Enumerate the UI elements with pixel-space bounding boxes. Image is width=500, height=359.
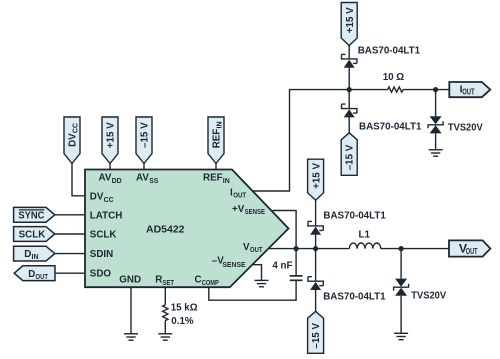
wire REFIN flag to pin xyxy=(215,164,217,170)
svg-text:SENSE: SENSE xyxy=(223,262,246,269)
svg-text:COMP: COMP xyxy=(202,280,219,287)
wire DIN to SDIN xyxy=(55,253,85,255)
wire D1 to junction xyxy=(348,68,350,90)
node REFIN flag xyxy=(208,117,224,164)
ground (TVS1) xyxy=(429,150,443,156)
wire resistor to IOUT flag xyxy=(403,89,449,91)
wire TVS1 to ground xyxy=(435,133,437,149)
svg-text:+V: +V xyxy=(232,204,245,215)
svg-text:REF: REF xyxy=(212,129,223,149)
pin label CCOMP xyxy=(195,274,220,287)
node IOUT output flag xyxy=(449,82,490,97)
wire RSET resistor to ground xyxy=(164,321,166,334)
diode D3 BAS70 upper (VOUT) xyxy=(308,221,323,234)
node DOUT output flag xyxy=(14,266,55,281)
svg-text:10 Ω: 10 Ω xyxy=(383,72,405,83)
pin label REFIN xyxy=(203,173,230,186)
pin label DVCC xyxy=(90,192,114,205)
wire +VSENSE to VOUT node xyxy=(273,211,297,249)
pin label IOUT xyxy=(230,187,247,199)
ground (-VSENSE) xyxy=(255,280,269,286)
node junction VOUT-cap xyxy=(294,246,299,251)
svg-text:SS: SS xyxy=(149,178,159,185)
svg-text:V: V xyxy=(243,242,250,253)
ground (GND pin) xyxy=(124,334,138,340)
TVS diode TVS20V (IOUT) xyxy=(428,116,443,133)
pin label +VSENSE xyxy=(232,204,265,216)
resistor RSET 15k xyxy=(163,305,168,321)
svg-text:C: C xyxy=(195,274,202,285)
capacitor C 4nF plates xyxy=(290,276,303,280)
node +15V supply flag (AVDD) xyxy=(102,117,118,164)
node -15V supply flag (IOUT clamp) xyxy=(341,133,357,176)
svg-text:DD: DD xyxy=(112,178,122,185)
wire TVS1 top xyxy=(435,90,437,117)
node -15V supply flag (AVSS) xyxy=(136,117,152,164)
svg-text:0.1%: 0.1% xyxy=(171,316,194,327)
wire TVS2 top xyxy=(400,249,402,279)
svg-text:OUT: OUT xyxy=(462,88,475,97)
svg-text:BAS70-04LT1: BAS70-04LT1 xyxy=(359,121,422,132)
node DIN input flag xyxy=(14,246,55,261)
svg-text:BAS70-04LT1: BAS70-04LT1 xyxy=(358,46,421,57)
wire RSET pin down xyxy=(164,287,166,305)
wire SYNC to LATCH xyxy=(55,214,85,216)
pin label AVDD xyxy=(99,173,122,186)
wire TVS2 to ground xyxy=(400,296,402,334)
op-amp U1 AD5422 chip body xyxy=(85,170,289,288)
svg-text:D: D xyxy=(28,269,35,280)
wire -VSENSE to ground xyxy=(253,265,262,281)
node junction IOUT-TVS xyxy=(433,87,438,92)
svg-text:AD5422: AD5422 xyxy=(146,224,185,236)
diode D4 BAS70 lower (VOUT) xyxy=(308,277,323,290)
TVS diode TVS20V (VOUT) xyxy=(394,279,409,296)
pin label AVSS xyxy=(136,173,159,186)
node SYNC input flag xyxy=(14,207,55,222)
wire VOUT pin to inductor xyxy=(268,248,349,250)
wire junction to D2 xyxy=(348,90,350,109)
svg-text:BAS70-04LT1: BAS70-04LT1 xyxy=(323,291,386,302)
svg-text:AV: AV xyxy=(136,173,149,184)
svg-text:REF: REF xyxy=(203,173,223,184)
wire DVCC flag to pin xyxy=(72,164,85,196)
svg-text:OUT: OUT xyxy=(250,247,263,254)
svg-text:L1: L1 xyxy=(359,230,371,241)
svg-text:CC: CC xyxy=(104,197,114,204)
wire CCOMP to capacitor bottom xyxy=(209,280,296,300)
wire GND pin down xyxy=(130,287,132,334)
svg-text:+15 V: +15 V xyxy=(311,163,322,189)
svg-text:SCLK: SCLK xyxy=(19,230,46,241)
node -15V supply flag (VOUT clamp) xyxy=(308,311,324,353)
node junction VOUT-TVS xyxy=(399,246,404,251)
svg-text:CC: CC xyxy=(73,123,80,133)
wire +15V to diode D1 xyxy=(348,46,350,59)
wire +15V to D3 xyxy=(315,200,317,226)
svg-text:OUT: OUT xyxy=(466,247,478,256)
svg-text:SYNC: SYNC xyxy=(18,211,44,222)
node +15V supply flag (IOUT clamp) xyxy=(341,3,357,46)
svg-text:LATCH: LATCH xyxy=(90,210,122,221)
node +15V supply flag (VOUT clamp) xyxy=(308,159,324,200)
pin label RSET xyxy=(155,274,174,287)
svg-text:IN: IN xyxy=(223,178,230,185)
svg-text:–15 V: –15 V xyxy=(311,323,322,349)
wire SCLK to SCLK pin xyxy=(55,233,85,235)
svg-text:SCLK: SCLK xyxy=(90,230,117,241)
svg-text:–15 V: –15 V xyxy=(345,144,356,170)
wire D2 to -15V flag xyxy=(348,117,350,132)
pin label -VSENSE xyxy=(212,256,246,269)
ground (TVS2) xyxy=(394,333,408,339)
wire inductor to VOUT flag xyxy=(381,248,449,250)
svg-text:4 nF: 4 nF xyxy=(272,261,292,272)
wire capacitor top to VOUT node xyxy=(295,249,297,276)
svg-text:GND: GND xyxy=(119,274,141,285)
svg-text:D: D xyxy=(24,249,31,260)
svg-text:DV: DV xyxy=(90,192,104,203)
svg-text:+15 V: +15 V xyxy=(106,122,117,148)
resistor 10 Ohm xyxy=(388,87,403,92)
svg-text:15 kΩ: 15 kΩ xyxy=(171,303,198,314)
svg-text:TVS20V: TVS20V xyxy=(411,290,446,301)
svg-text:IN: IN xyxy=(32,254,39,261)
svg-text:–15 V: –15 V xyxy=(140,122,151,148)
wire +15V to AVDD xyxy=(109,164,111,170)
node VOUT output flag xyxy=(449,240,490,256)
wire IOUT pin up and across xyxy=(253,90,388,191)
svg-text:TVS20V: TVS20V xyxy=(448,123,483,134)
wire -15V to AVSS xyxy=(143,164,145,170)
svg-text:BAS70-04LT1: BAS70-04LT1 xyxy=(323,211,386,222)
inductor L1 xyxy=(349,243,380,249)
ground (RSET) xyxy=(158,334,172,340)
node DVCC supply flag xyxy=(64,117,80,164)
svg-text:IN: IN xyxy=(217,122,224,129)
svg-text:SDO: SDO xyxy=(90,269,112,280)
wire D4 to -15V flag xyxy=(315,290,317,311)
svg-text:SET: SET xyxy=(162,280,174,287)
svg-text:OUT: OUT xyxy=(36,274,49,281)
svg-text:R: R xyxy=(155,274,162,285)
pin label VOUT xyxy=(243,242,263,254)
svg-text:AV: AV xyxy=(99,173,112,184)
svg-text:DV: DV xyxy=(68,133,79,147)
wire D3 to VOUT node xyxy=(315,235,317,249)
svg-text:+15 V: +15 V xyxy=(345,7,356,33)
node SCLK input flag xyxy=(14,227,55,242)
svg-text:SENSE: SENSE xyxy=(245,209,266,216)
svg-text:OUT: OUT xyxy=(233,192,247,199)
wire VOUT node to D4 xyxy=(315,249,317,282)
node junction VOUT-diodes xyxy=(313,246,318,251)
diode D1 BAS70 upper (IOUT) xyxy=(342,54,357,67)
diode D2 BAS70 lower (IOUT) xyxy=(342,104,357,117)
wire SDO to DOUT xyxy=(55,272,85,274)
node junction IOUT-diodes xyxy=(347,87,352,92)
svg-text:SDIN: SDIN xyxy=(90,249,113,260)
